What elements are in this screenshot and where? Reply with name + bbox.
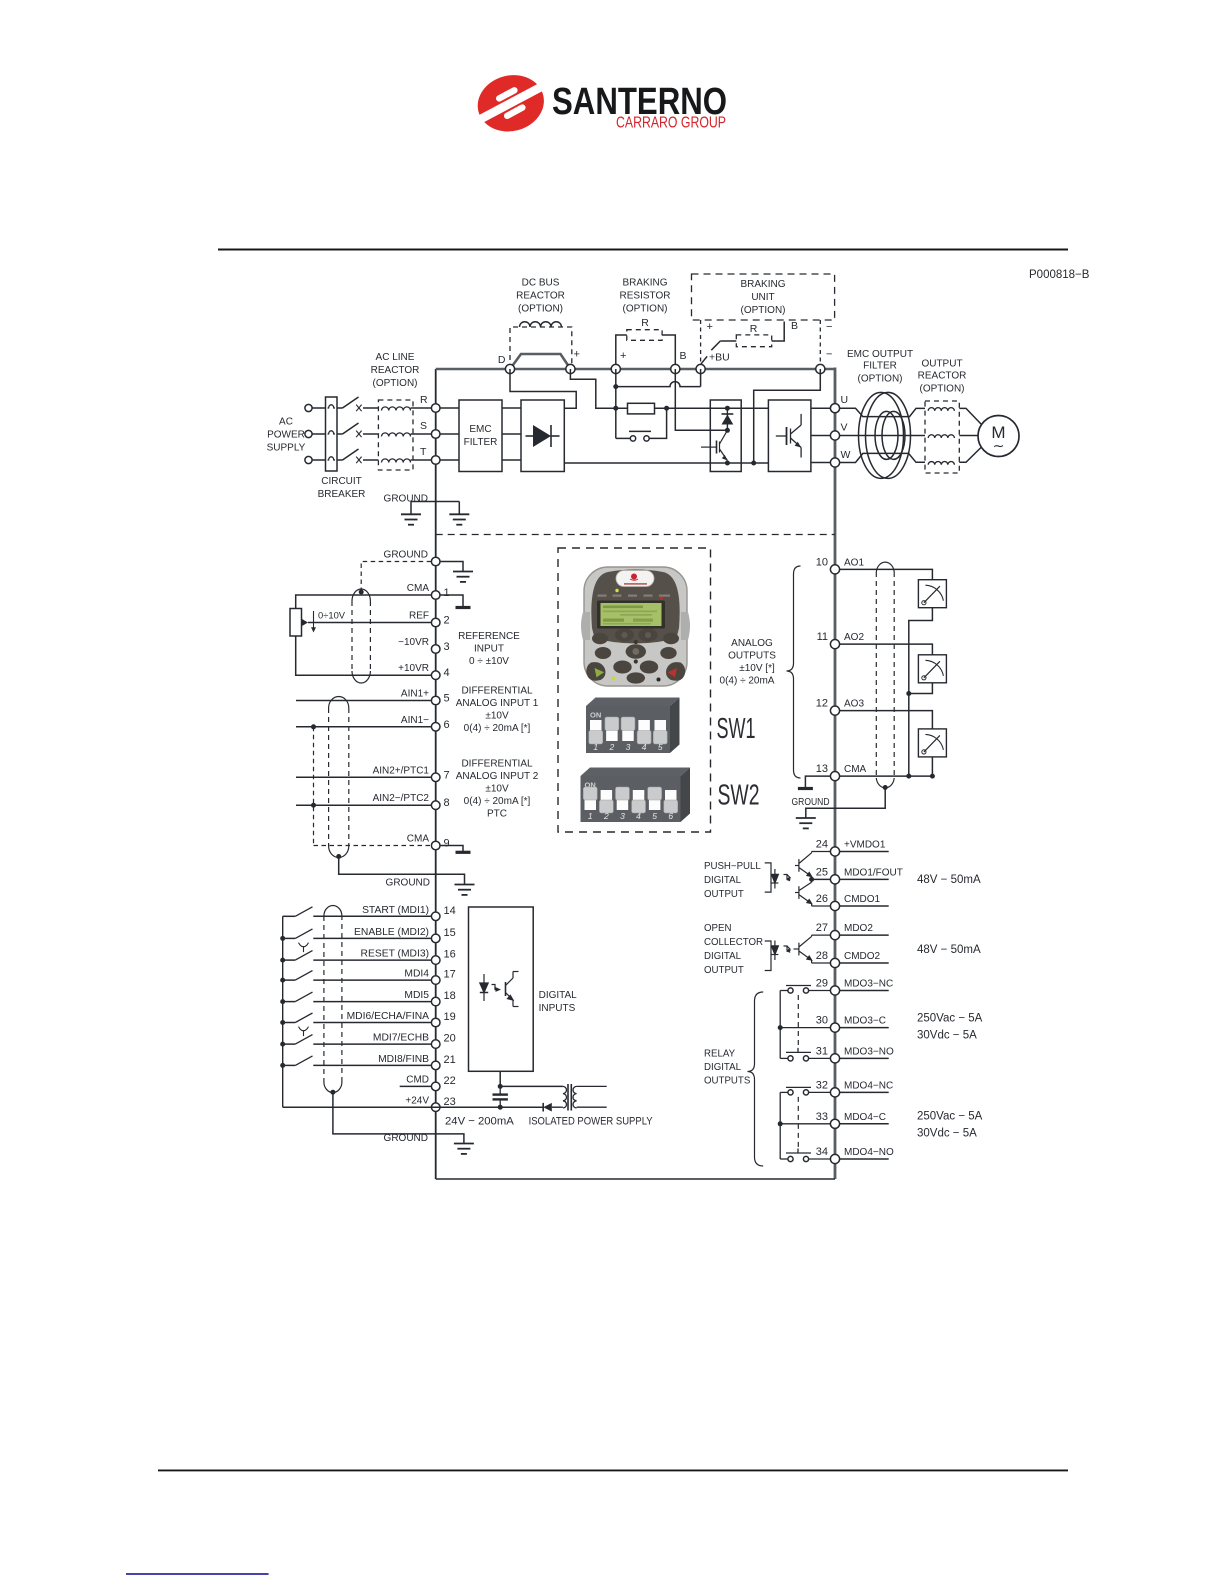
dashed drain to CMA9 xyxy=(314,727,432,846)
OPEN COLLECTOR DIGITAL OUTPUT label xyxy=(704,923,763,976)
switch contact xyxy=(283,1056,313,1066)
junction precharge out xyxy=(664,406,669,411)
relay common feed xyxy=(780,1092,830,1159)
EMC filter box xyxy=(459,400,502,472)
mechanical link (dashed) xyxy=(797,1097,799,1147)
chopper junction top xyxy=(725,406,730,411)
junction on rail xyxy=(280,958,285,963)
input wire xyxy=(313,979,431,981)
svg-text:5: 5 xyxy=(444,693,450,705)
terminal 1 CMA xyxy=(407,583,450,599)
svg-text:16: 16 xyxy=(444,949,456,961)
wire inverter W out xyxy=(811,462,835,464)
rectifier diode symbol xyxy=(526,425,560,447)
svg-text:12: 12 xyxy=(816,698,828,710)
250Vac label 2 xyxy=(917,1111,983,1140)
svg-text:ANALOG: ANALOG xyxy=(731,638,773,649)
svg-text:19: 19 xyxy=(444,1011,456,1023)
pushbutton actuator xyxy=(299,1027,309,1037)
terminal GROUND (control top) xyxy=(384,550,440,566)
ground symbol (EMC) xyxy=(449,514,469,524)
wire - node to bottom rail xyxy=(754,369,821,463)
svg-text:OPEN: OPEN xyxy=(704,923,731,934)
node D xyxy=(505,364,514,373)
terminal 3 −10VR xyxy=(398,637,449,653)
terminal 17 MDI4 xyxy=(404,969,455,985)
terminal 21 MDI8/FINB xyxy=(378,1054,456,1070)
svg-text:PTC: PTC xyxy=(487,809,507,820)
analog shield bottom junction xyxy=(336,854,341,859)
optocoupler LED (open collector) xyxy=(771,941,790,961)
svg-text:23: 23 xyxy=(444,1096,456,1108)
wire + node to precharge rail xyxy=(570,369,627,408)
reactor winding V xyxy=(928,435,954,438)
terminal 15 ENABLE (MDI2) xyxy=(354,927,456,943)
svg-text:2: 2 xyxy=(609,742,615,752)
junction on rail xyxy=(280,1042,285,1047)
wire xyxy=(411,407,432,409)
brake chopper box xyxy=(710,400,741,472)
inverter box xyxy=(768,400,811,472)
svg-text:U: U xyxy=(841,394,849,406)
terminal 12 AO3 xyxy=(816,698,865,716)
svg-text:−: − xyxy=(826,321,832,333)
svg-text:REACTOR: REACTOR xyxy=(516,291,565,302)
svg-text:CIRCUIT: CIRCUIT xyxy=(321,476,362,487)
wire V through filter xyxy=(840,435,925,437)
svg-text:+: + xyxy=(620,350,626,362)
wire AIN1+ xyxy=(296,700,431,702)
wire bus to EMC xyxy=(440,433,459,435)
terminal 26 CMDO1 xyxy=(816,893,881,911)
terminal S xyxy=(431,430,440,439)
wire xyxy=(312,459,325,461)
DC bus reactor winding xyxy=(520,322,562,327)
ground symbol (control top) xyxy=(453,572,473,582)
svg-text:REACTOR: REACTOR xyxy=(918,371,967,382)
terminal 7 AIN2+/PTC1 xyxy=(373,765,450,781)
chopper IGBT Q1 xyxy=(701,430,727,460)
input wire xyxy=(313,1043,431,1045)
wire EMC to rectifier xyxy=(502,407,521,409)
DIGITAL INPUTS box xyxy=(469,907,534,1071)
svg-text:30Vdc − 5A: 30Vdc − 5A xyxy=(917,1030,977,1042)
svg-text:0(4) ÷ 20mA [*]: 0(4) ÷ 20mA [*] xyxy=(464,796,531,807)
svg-text:(OPTION): (OPTION) xyxy=(858,374,903,385)
node +BU xyxy=(696,364,705,373)
DIGITAL INPUTS label xyxy=(539,990,578,1014)
reactor winding xyxy=(382,407,411,411)
svg-text:0 ÷ ±10V: 0 ÷ ±10V xyxy=(469,656,509,667)
PUSH-PULL DIGITAL OUTPUT label xyxy=(704,861,761,900)
reactor winding W xyxy=(928,462,954,465)
svg-text:OUTPUT: OUTPUT xyxy=(921,359,962,370)
shield capsule (MDI cable) xyxy=(324,906,342,1093)
meter P1 xyxy=(918,580,946,608)
wire AO2 to meter2 xyxy=(840,644,933,655)
AC POWER SUPPLY label xyxy=(267,417,306,454)
junction y386 line xyxy=(613,384,618,389)
svg-text:∼: ∼ xyxy=(993,438,1005,454)
svg-text:AC: AC xyxy=(279,417,293,428)
svg-text:CMDO2: CMDO2 xyxy=(844,951,881,962)
svg-text:8: 8 xyxy=(444,797,450,809)
inverter IGBT symbol xyxy=(776,414,801,458)
terminal R xyxy=(431,404,440,413)
optocoupler LED (push-pull) xyxy=(771,869,790,889)
svg-text:+: + xyxy=(707,321,713,333)
AC supply terminal L1 xyxy=(305,404,312,411)
wire reactor to motor W xyxy=(959,448,981,463)
svg-text:±10V: ±10V xyxy=(485,711,509,722)
input wire xyxy=(313,959,431,961)
pot bottom wire to +10VR xyxy=(296,636,432,675)
svg-text:−: − xyxy=(826,349,832,361)
svg-text:−10VR: −10VR xyxy=(398,637,429,648)
svg-text:GROUND: GROUND xyxy=(792,797,830,808)
svg-text:DIGITAL: DIGITAL xyxy=(539,990,578,1001)
brace relay outputs xyxy=(748,992,764,1166)
terminal 27 MDO2 xyxy=(816,922,874,940)
brace analog outputs xyxy=(787,566,801,778)
dashed internal separator xyxy=(436,534,835,536)
svg-text:AO2: AO2 xyxy=(844,632,864,643)
svg-text:EMC OUTPUT: EMC OUTPUT xyxy=(847,349,913,360)
svg-text:FILTER: FILTER xyxy=(863,361,897,372)
AC supply terminal L3 xyxy=(305,456,312,463)
NC contact xyxy=(786,1087,830,1095)
svg-text:250Vac − 5A: 250Vac − 5A xyxy=(917,1111,983,1123)
svg-text:DIGITAL: DIGITAL xyxy=(704,951,742,962)
wire AIN2- xyxy=(296,804,431,806)
svg-text:MDO3−NO: MDO3−NO xyxy=(844,1046,894,1057)
wire CMA9 to common bar xyxy=(440,846,463,852)
junction on rail xyxy=(280,1063,285,1068)
svg-text:1: 1 xyxy=(593,742,598,752)
shield capsule (analog outputs) xyxy=(876,562,894,788)
wire mid to 25 xyxy=(812,878,831,880)
svg-text:15: 15 xyxy=(444,927,456,939)
svg-text:POWER: POWER xyxy=(267,430,305,441)
svg-text:2: 2 xyxy=(603,811,609,821)
svg-text:4: 4 xyxy=(636,811,641,821)
DC BUS REACTOR label xyxy=(516,278,565,315)
svg-text:+10VR: +10VR xyxy=(398,663,429,674)
svg-text:ISOLATED POWER SUPPLY: ISOLATED POWER SUPPLY xyxy=(529,1116,653,1128)
svg-text:R: R xyxy=(750,323,758,335)
motor M1 xyxy=(978,416,1019,457)
svg-text:AC LINE: AC LINE xyxy=(376,352,415,363)
BRAKING UNIT dashed box xyxy=(692,274,835,320)
DIP switch SW1 xyxy=(586,698,680,754)
svg-text:20: 20 xyxy=(444,1033,456,1045)
svg-text:EMC: EMC xyxy=(469,424,491,435)
svg-text:RELAY: RELAY xyxy=(704,1049,736,1060)
wire meter2 to common xyxy=(909,683,933,694)
terminal 23 +24V xyxy=(405,1096,455,1112)
input wire xyxy=(313,915,431,917)
relay stub wire xyxy=(840,1057,889,1059)
bracket push-pull xyxy=(765,863,771,892)
terminal W xyxy=(830,458,839,467)
node + (DC link) xyxy=(566,364,575,373)
svg-text:RESISTOR: RESISTOR xyxy=(620,291,671,302)
ISOLATED POWER SUPPLY label xyxy=(445,1116,653,1128)
REFERENCE INPUT text xyxy=(458,631,520,667)
CMD stub wire xyxy=(400,1085,432,1087)
svg-text:AIN2−/PTC2: AIN2−/PTC2 xyxy=(373,793,430,804)
junction precharge in xyxy=(613,406,618,411)
switch contact xyxy=(283,971,313,981)
CIRCUIT BREAKER label xyxy=(318,476,366,500)
terminal 30 MDO3−C xyxy=(816,1015,886,1033)
terminal 11 AO2 xyxy=(817,631,865,649)
ground symbol (AO) xyxy=(796,818,816,828)
svg-text:26: 26 xyxy=(816,893,828,905)
keypad device photo xyxy=(581,567,690,686)
wire reactor to motor U xyxy=(959,408,981,424)
svg-text:9: 9 xyxy=(444,838,450,850)
output stub wire xyxy=(840,878,889,880)
svg-text:UNIT: UNIT xyxy=(751,292,774,303)
ground symbol (analog) xyxy=(455,885,475,895)
junction relay common xyxy=(778,1121,783,1126)
svg-text:(OPTION): (OPTION) xyxy=(920,384,965,395)
wire AIN1- xyxy=(296,726,431,728)
switch contact xyxy=(283,1035,313,1045)
wire CMA13 to common bar xyxy=(805,776,830,787)
svg-text:(OPTION): (OPTION) xyxy=(741,305,786,316)
svg-text:FILTER: FILTER xyxy=(464,437,498,448)
wire CMA1 to common bar xyxy=(440,595,463,606)
svg-text:4: 4 xyxy=(444,667,450,679)
junction CMA common xyxy=(906,774,911,779)
ground branch wire xyxy=(411,502,459,515)
svg-text:1: 1 xyxy=(588,811,593,821)
breaker pole element xyxy=(328,405,336,408)
analog shield drain to ground xyxy=(339,857,465,885)
terminal 8 AIN2−/PTC2 xyxy=(373,793,450,809)
wire left terminal bus xyxy=(435,369,437,1179)
svg-text:+VMDO1: +VMDO1 xyxy=(844,840,886,851)
wire AO1 to meter1 xyxy=(840,569,933,579)
svg-text:6: 6 xyxy=(444,719,450,731)
svg-text:REACTOR: REACTOR xyxy=(371,365,420,376)
svg-text:22: 22 xyxy=(444,1075,456,1087)
braking unit resistor left lead with +BU break xyxy=(701,341,737,364)
disconnect switch blade xyxy=(337,423,378,437)
svg-text:R: R xyxy=(420,394,428,406)
svg-text:(OPTION): (OPTION) xyxy=(373,378,418,389)
wire right output bus xyxy=(834,368,837,1180)
wire bus to EMC xyxy=(440,407,459,409)
relay stub wire xyxy=(840,990,889,992)
reactor winding xyxy=(382,459,411,463)
svg-text:MDI7/ECHB: MDI7/ECHB xyxy=(373,1033,429,1044)
svg-text:34: 34 xyxy=(816,1146,828,1158)
terminal 24 +VMDO1 xyxy=(816,839,886,857)
svg-text:SUPPLY: SUPPLY xyxy=(267,443,306,454)
svg-text:B: B xyxy=(680,350,687,362)
filter capacitor C1 xyxy=(493,1086,508,1107)
svg-text:17: 17 xyxy=(444,969,456,981)
terminal 22 CMD xyxy=(406,1075,456,1091)
keypad/DIP dashed box xyxy=(558,548,711,832)
svg-text:BRAKING: BRAKING xyxy=(622,278,667,289)
svg-text:GROUND: GROUND xyxy=(384,494,428,505)
pot adjust arrow xyxy=(311,611,316,633)
reactor winding xyxy=(382,433,411,437)
svg-text:R: R xyxy=(641,317,649,329)
bottom DC rail xyxy=(564,462,768,464)
Santerno logo S mark xyxy=(471,68,551,138)
svg-text:ON: ON xyxy=(590,711,601,720)
svg-text:MDO3−NC: MDO3−NC xyxy=(844,979,893,990)
rectifier bridge box xyxy=(521,400,564,472)
wire +BU node drop xyxy=(700,369,702,387)
svg-text:DIFFERENTIAL: DIFFERENTIAL xyxy=(461,759,533,770)
svg-text:AIN1+: AIN1+ xyxy=(401,689,429,700)
svg-text:T: T xyxy=(420,446,427,458)
breaker pole element xyxy=(328,457,336,460)
NC contact xyxy=(786,986,830,994)
terminal 18 MDI5 xyxy=(404,990,455,1006)
terminal 16 RESET (MDI3) xyxy=(361,949,456,965)
wire xyxy=(312,433,325,435)
svg-text:PUSH−PULL: PUSH−PULL xyxy=(704,861,761,872)
svg-text:AO3: AO3 xyxy=(844,699,864,710)
svg-text:MDI4: MDI4 xyxy=(404,969,429,980)
svg-text:B: B xyxy=(791,320,798,332)
svg-text:REF: REF xyxy=(409,611,429,622)
wire reactor to motor V xyxy=(959,435,978,437)
switch contact xyxy=(283,929,313,939)
svg-text:MDI8/FINB: MDI8/FINB xyxy=(378,1054,429,1065)
NO contact xyxy=(786,1149,830,1162)
junction on rail xyxy=(280,1020,285,1025)
braking resistor leads xyxy=(616,335,676,369)
input wire xyxy=(313,937,431,939)
shield drain to ground (dashed) xyxy=(361,562,431,593)
terminal 14 START (MDI1) xyxy=(362,905,456,921)
svg-text:21: 21 xyxy=(444,1054,456,1066)
svg-text:+: + xyxy=(574,349,580,361)
svg-text:13: 13 xyxy=(816,763,828,775)
output stub wire xyxy=(840,962,889,964)
svg-text:6: 6 xyxy=(668,811,673,821)
wire inputs box to CMD xyxy=(499,1071,501,1086)
svg-text:0÷10V: 0÷10V xyxy=(318,609,346,620)
svg-text:48V − 50mA: 48V − 50mA xyxy=(917,874,981,886)
svg-text:MDO4−C: MDO4−C xyxy=(844,1112,886,1123)
terminal 9 CMA xyxy=(407,834,450,850)
AO shield bottom junction xyxy=(883,785,888,790)
EMC FILTER label xyxy=(464,424,498,448)
svg-text:P000818−B: P000818−B xyxy=(1029,269,1090,281)
svg-text:AO1: AO1 xyxy=(844,557,864,568)
external braking resistor dashed body xyxy=(736,335,771,347)
AC LINE REACTOR label xyxy=(371,352,420,389)
svg-text:RESET (MDI3): RESET (MDI3) xyxy=(361,949,429,960)
output stub wire xyxy=(840,905,889,907)
input wire xyxy=(313,1064,431,1066)
braking unit - lead (dashed) xyxy=(819,320,821,365)
shield capsule (analog inputs) xyxy=(329,697,349,858)
OUTPUT REACTOR label xyxy=(918,359,967,395)
svg-text:SW1: SW1 xyxy=(717,713,756,745)
svg-text:MDI6/ECHA/FINA: MDI6/ECHA/FINA xyxy=(347,1011,430,1022)
chopper diode xyxy=(722,408,734,430)
PSU diode D1 xyxy=(543,1103,560,1112)
meter P2 xyxy=(918,655,946,683)
switch contact xyxy=(283,951,313,961)
svg-text:18: 18 xyxy=(444,990,456,1002)
terminal 34 MDO4−NO xyxy=(816,1146,894,1164)
junction on rail xyxy=(280,936,285,941)
bottom rule xyxy=(158,1469,1068,1471)
svg-text:±10V: ±10V xyxy=(485,784,509,795)
wire brake-res + node down xyxy=(615,369,617,438)
svg-text:COLLECTOR: COLLECTOR xyxy=(704,937,763,948)
svg-text:±10V [*]: ±10V [*] xyxy=(739,663,775,674)
junction relay common xyxy=(778,1025,783,1030)
output stub wire xyxy=(840,851,889,853)
optocoupler (digital inputs) xyxy=(480,972,519,1007)
terminal 29 MDO3−NC xyxy=(816,978,893,996)
BRAKING RESISTOR label xyxy=(620,278,671,315)
toroid output filter xyxy=(859,392,911,478)
input wire xyxy=(313,1001,431,1003)
svg-text:24V − 200mA: 24V − 200mA xyxy=(445,1116,514,1128)
svg-text:1: 1 xyxy=(444,587,450,599)
wire meter3 to CMA xyxy=(931,757,933,776)
junction meter2 common xyxy=(906,691,911,696)
junction shield drain xyxy=(359,590,364,595)
svg-text:V: V xyxy=(841,422,848,434)
node + (brake res) xyxy=(611,364,620,373)
svg-text:(OPTION): (OPTION) xyxy=(518,304,563,315)
EMC OUTPUT FILTER label xyxy=(847,349,913,385)
svg-text:OUTPUTS: OUTPUTS xyxy=(704,1076,751,1087)
wire to +BU drop (with hop) xyxy=(616,382,701,387)
ground symbol (MDI) xyxy=(454,1144,474,1154)
precharge rail to chopper/inverter xyxy=(655,407,769,409)
svg-text:START (MDI1): START (MDI1) xyxy=(362,905,429,916)
relay stub wire xyxy=(840,1027,889,1029)
relay stub wire xyxy=(840,1091,889,1093)
MDI shield drain to ground xyxy=(333,1092,464,1143)
svg-text:MDO3−C: MDO3−C xyxy=(844,1016,886,1027)
svg-text:DC BUS: DC BUS xyxy=(522,278,560,289)
svg-text:REFERENCE: REFERENCE xyxy=(458,631,520,642)
switch contact xyxy=(283,1013,313,1023)
wire top DC bus xyxy=(436,368,835,371)
svg-text:ENABLE (MDI2): ENABLE (MDI2) xyxy=(354,927,429,938)
svg-text:DIGITAL: DIGITAL xyxy=(704,1062,742,1073)
precharge bypass contactor xyxy=(616,408,667,441)
common bar CMA9 xyxy=(456,851,471,854)
svg-text:3: 3 xyxy=(620,811,625,821)
wire inverter V out xyxy=(811,435,835,437)
junction push-pull mid xyxy=(809,877,814,882)
svg-text:25: 25 xyxy=(816,866,828,878)
wire xyxy=(312,407,325,409)
svg-text:4: 4 xyxy=(642,742,647,752)
svg-text:CMDO1: CMDO1 xyxy=(844,894,881,905)
svg-text:OUTPUT: OUTPUT xyxy=(704,965,744,976)
junction on rail xyxy=(280,999,285,1004)
wire EMC to rectifier xyxy=(502,459,521,461)
